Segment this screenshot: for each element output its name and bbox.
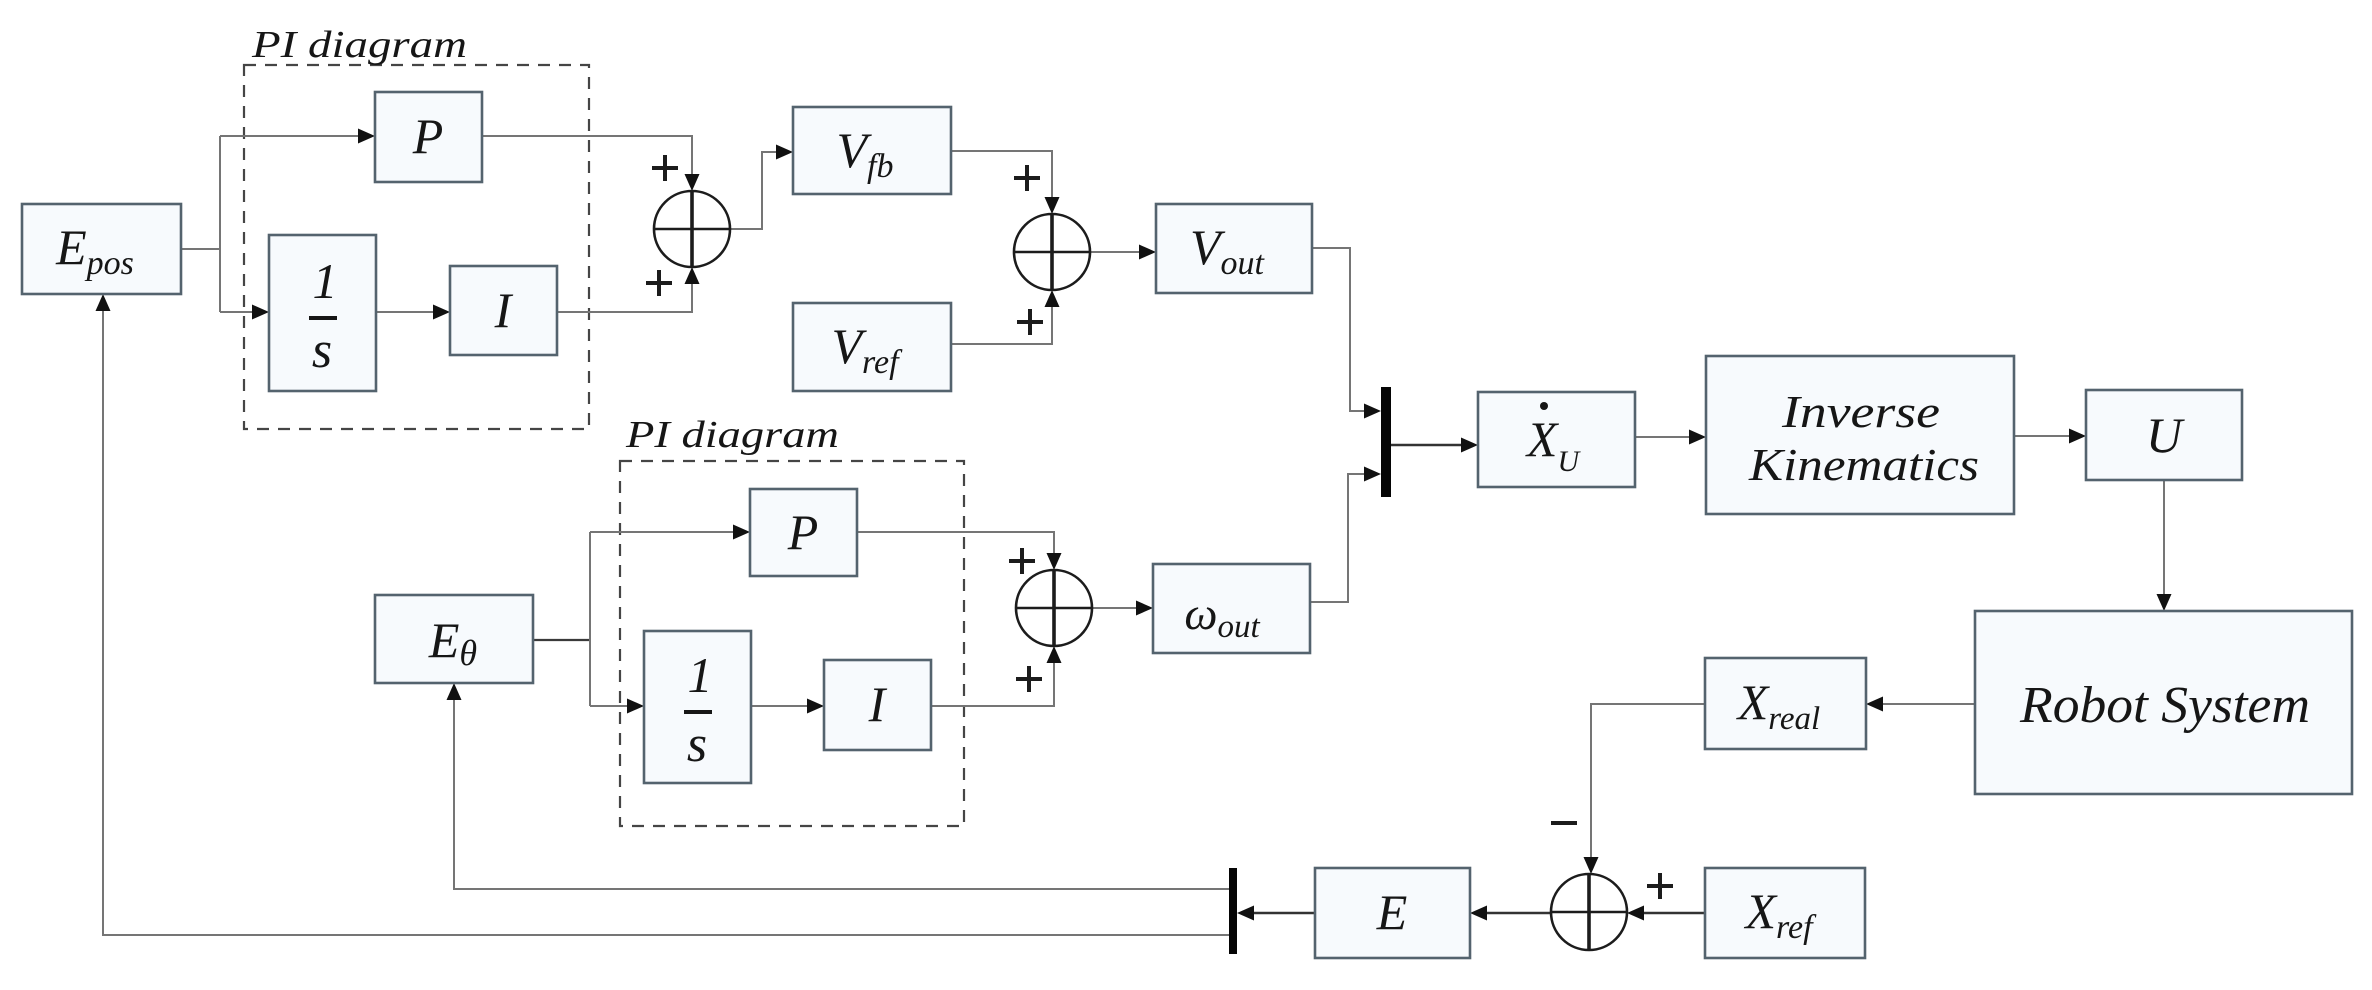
wire integrator2 to I2: [751, 705, 811, 707]
wire integrator1 to I1: [376, 311, 437, 313]
wire Vref to sum2: [951, 303, 1052, 344]
label 1/s 2: [684, 647, 713, 773]
svg-text:P: P: [412, 108, 444, 164]
plus sign sum1 bottom: [646, 270, 672, 296]
plus sign sum3: [1647, 873, 1673, 899]
block XdotU: [1478, 392, 1635, 487]
wire I1 to sum1: [557, 280, 692, 312]
summing junction sum2: [1014, 214, 1090, 290]
block Vref: [793, 303, 951, 391]
block I2: [824, 660, 931, 750]
svg-text:I: I: [868, 676, 888, 732]
svg-text:PI diagram: PI diagram: [251, 24, 467, 66]
svg-text:1: 1: [688, 647, 713, 703]
wire Vfb to sum2: [951, 151, 1052, 201]
wire demux to Etheta feedback: [454, 696, 1229, 889]
block U: [2086, 390, 2242, 480]
block robot system: [1975, 611, 2352, 794]
wire wout to mux1: [1310, 474, 1368, 602]
plus sign sum4 bottom: [1016, 666, 1042, 692]
svg-text:Kinematics: Kinematics: [1748, 439, 1979, 490]
minus sign sum3: [1551, 821, 1577, 825]
block P1: [375, 92, 482, 182]
svg-text:Inverse: Inverse: [1781, 386, 1940, 437]
svg-text:I: I: [494, 282, 514, 338]
block Etheta: [375, 595, 533, 683]
wire Vout to mux1: [1312, 248, 1368, 411]
block Vout: [1156, 204, 1312, 293]
wire sum3 to E: [1483, 912, 1551, 914]
summing junction sum3: [1551, 874, 1627, 950]
plus sign sum2 bottom: [1017, 309, 1043, 335]
summing junction sum1: [654, 191, 730, 267]
wire sum4 to wout: [1092, 607, 1140, 609]
plus sign sum4 top: [1009, 548, 1035, 574]
dashed PI diagram container 1: [244, 65, 589, 429]
svg-text:s: s: [687, 716, 707, 773]
wire split2 to P2: [590, 531, 737, 533]
wire split2 vertical: [589, 532, 591, 706]
wire split to integrator 1: [220, 311, 256, 313]
block Epos: [22, 204, 181, 294]
wire Epos to split: [181, 248, 220, 250]
label Inverse Kinematics: [1748, 386, 1979, 490]
plus sign sum2 top: [1014, 165, 1040, 191]
block integrator 1/s 2: [644, 631, 751, 783]
wire sum2 to Vout: [1089, 251, 1143, 253]
demux bar 2: [1229, 868, 1237, 954]
wire mux1 to XdotU: [1391, 444, 1465, 447]
wire Etheta to split2: [533, 639, 590, 641]
wire split to P1: [220, 135, 362, 137]
wire I2 to sum4: [931, 659, 1054, 706]
wire XdotU to inverse kinematics: [1635, 436, 1693, 438]
svg-text:U: U: [2146, 407, 2185, 463]
label Xdot U: [1525, 402, 1582, 478]
block Vfb: [793, 107, 951, 194]
block E: [1315, 868, 1470, 958]
wire inverse kinematics to U: [2014, 435, 2073, 437]
svg-text:PI diagram: PI diagram: [625, 414, 839, 456]
label 1/s 1: [309, 253, 338, 379]
svg-text:1: 1: [313, 253, 338, 309]
wire E to demux: [1250, 912, 1315, 914]
wire sum1 to Vfb: [730, 152, 780, 229]
wire U to robot system: [2163, 480, 2165, 598]
svg-text:s: s: [312, 322, 332, 379]
wire P2 to sum4: [857, 532, 1054, 557]
wire split vertical: [219, 136, 221, 312]
svg-text:Robot System: Robot System: [2019, 677, 2310, 734]
dashed PI diagram container 2: [620, 461, 964, 826]
wire demux to Epos feedback: [103, 307, 1229, 935]
wire robot system to Xreal: [1879, 703, 1975, 705]
mux bar 1: [1381, 387, 1391, 497]
wire Xref to sum3: [1640, 912, 1705, 914]
wire Xreal to sum3: [1591, 704, 1705, 861]
block Xreal: [1705, 658, 1866, 749]
wire P1 to sum1: [482, 136, 692, 178]
block inverse kinematics: [1706, 356, 2014, 514]
summing junction sum4: [1016, 570, 1092, 646]
svg-text:P: P: [787, 504, 819, 560]
wire split2 to integrator2: [590, 705, 631, 707]
block Xref: [1705, 868, 1865, 958]
block P2: [750, 489, 857, 576]
svg-text:E: E: [1376, 884, 1408, 940]
plus sign sum1 top: [652, 155, 678, 181]
block integrator 1/s 1: [269, 235, 376, 391]
block omega out: [1153, 564, 1310, 653]
block I1: [450, 266, 557, 355]
